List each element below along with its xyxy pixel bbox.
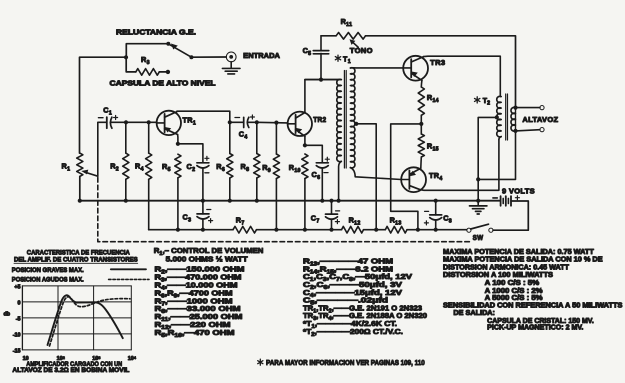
svg-text:+5: +5 <box>14 284 20 290</box>
wire TR1 collector <box>177 111 230 122</box>
wire TR2 collector <box>305 80 339 113</box>
resistor R5 <box>175 154 181 178</box>
capacitor C6 <box>316 162 328 164</box>
wire T2 CT to ground <box>478 117 497 200</box>
capacitor C4 <box>230 121 244 123</box>
svg-text:5.000 OHMS ½ WATT: 5.000 OHMS ½ WATT <box>166 254 249 263</box>
svg-text:R5,R10,—470 OHM: R5,R10,—470 OHM <box>155 328 235 339</box>
capacitor C1 <box>106 117 108 128</box>
wire to input jack <box>191 56 226 58</box>
resistor R8 <box>256 122 258 153</box>
svg-text:2: 2 <box>487 101 490 107</box>
resistor R10 <box>302 154 308 179</box>
node speaker terminal top <box>513 106 517 110</box>
wire supply bias line <box>149 229 233 231</box>
svg-text:R4: R4 <box>135 162 144 173</box>
svg-text:R9: R9 <box>262 163 271 174</box>
ground chassis <box>477 201 479 206</box>
wire input-net top-left <box>80 57 127 153</box>
battery 9 VOLTS <box>500 196 502 206</box>
resistor R2 <box>125 122 127 153</box>
ground at input jack <box>230 62 232 68</box>
resistor R9 <box>275 123 277 154</box>
wire T1 secondary bottom to TR4 base <box>350 168 401 180</box>
svg-text:-5: -5 <box>16 316 21 322</box>
svg-text:9 VOLTS: 9 VOLTS <box>502 187 535 196</box>
resistor R11 tone control <box>321 35 336 37</box>
footnote <box>258 359 263 365</box>
wire secondary to ground <box>478 131 515 180</box>
transistor TR3 <box>403 56 428 81</box>
capacitor C2 <box>197 162 209 164</box>
svg-text:DISTORSION ARMONICA: 0.45 WATT: DISTORSION ARMONICA: 0.45 WATT <box>443 264 570 271</box>
R1 wiper arrow <box>84 172 97 176</box>
capacitor C7 <box>331 201 333 214</box>
svg-text:A 100 C/S : 5%: A 100 C/S : 5% <box>485 280 540 287</box>
wire emitter junction to switch <box>391 124 422 230</box>
transformer T2 secondary winding <box>515 108 517 131</box>
wire TR1 base net <box>124 120 128 124</box>
chart curve solid graves <box>48 295 123 345</box>
wire speaker bottom <box>516 130 540 131</box>
svg-text:R5: R5 <box>162 162 171 173</box>
svg-text:ALTAVOZ DE 3.2Ω EN BOBINA MOVI: ALTAVOZ DE 3.2Ω EN BOBINA MOVIL <box>12 367 129 374</box>
node selector junction <box>124 55 128 59</box>
svg-text:TR1: TR1 <box>183 116 197 127</box>
svg-text:DISTORSION A 100 MILIWATTS: DISTORSION A 100 MILIWATTS <box>443 272 553 279</box>
svg-text:C5: C5 <box>303 46 312 57</box>
wire TR1 emitter <box>177 135 179 144</box>
capacitor C8 <box>435 201 437 215</box>
svg-text:A 1000 C/S : 2%: A 1000 C/S : 2% <box>485 288 543 295</box>
wire TR4 collector to T2 <box>420 140 499 191</box>
svg-text:-10: -10 <box>13 332 21 338</box>
svg-text:R15: R15 <box>427 142 439 153</box>
capacitor C5 <box>320 53 322 79</box>
wire TR3 emitter <box>420 80 423 87</box>
svg-text:R10: R10 <box>289 163 301 174</box>
svg-text:ALTAVOZ: ALTAVOZ <box>522 115 558 124</box>
svg-text:TONO: TONO <box>350 46 373 55</box>
svg-text:C6: C6 <box>312 170 321 181</box>
transformer T1 primary winding <box>305 79 341 81</box>
transistor TR1 <box>157 111 181 135</box>
wire TR2 base net <box>255 120 259 124</box>
chart curve dashed agudos <box>50 297 131 346</box>
resistor R12 <box>342 226 364 233</box>
resistor R4 <box>148 122 150 153</box>
svg-text:C7: C7 <box>311 213 320 224</box>
svg-text:DE SALIDA:: DE SALIDA: <box>453 310 495 317</box>
svg-text:MAXIMA POTENCIA DE SALIDA: 0.7: MAXIMA POTENCIA DE SALIDA: 0.75 WATT <box>443 249 595 256</box>
svg-text:C8: C8 <box>443 213 452 224</box>
resistor R14 <box>418 87 424 115</box>
switch selector blade <box>169 44 192 57</box>
wire TR2 emitter <box>304 136 306 145</box>
resistor R1 volume control <box>77 153 83 176</box>
svg-text:R14: R14 <box>427 93 439 104</box>
svg-text:R13: R13 <box>390 215 402 226</box>
node TR1 collector load <box>228 120 232 124</box>
svg-text:SW: SW <box>473 233 484 242</box>
svg-text:R7: R7 <box>236 215 245 226</box>
svg-text:ENTRADA: ENTRADA <box>243 51 281 60</box>
label T2 <box>475 97 480 103</box>
resistor R6 <box>229 122 231 153</box>
capacitor C3 <box>197 213 209 215</box>
wire R11 to speaker feedback <box>366 36 516 108</box>
chart frequency response box <box>22 286 131 350</box>
svg-text:C1: C1 <box>103 105 112 116</box>
svg-text:R1: R1 <box>62 162 71 173</box>
R11 wiper arrow TONO <box>352 42 358 48</box>
svg-text:1: 1 <box>348 59 351 65</box>
svg-text:R6: R6 <box>216 162 225 173</box>
node R14 R15 junction <box>419 122 423 126</box>
svg-text:R2: R2 <box>110 162 119 173</box>
svg-text:PARA MAYOR INFORMACION VER PAG: PARA MAYOR INFORMACION VER PAGINAS 109, … <box>266 358 425 367</box>
svg-text:POSICION GRAVES MAX.: POSICION GRAVES MAX. <box>12 267 84 274</box>
svg-text:POSICION AGUDOS MAX.: POSICION AGUDOS MAX. <box>12 277 84 284</box>
transistor TR4 <box>401 167 426 192</box>
dashed tone control boundary <box>98 178 471 242</box>
svg-text:R3: R3 <box>141 55 150 66</box>
svg-text:DEL AMPLIF. DE CUATRO TRANSIST: DEL AMPLIF. DE CUATRO TRANSISTORES <box>14 257 138 264</box>
wire riser to switch <box>126 44 168 58</box>
svg-text:104: 104 <box>128 354 137 362</box>
node T2 primary center-tap <box>495 115 499 119</box>
svg-text:TR2: TR2 <box>313 115 326 124</box>
transformer T1 core <box>343 71 345 169</box>
svg-text:RELUCTANCIA G.E.: RELUCTANCIA G.E. <box>116 28 196 37</box>
switch selector fixed contact <box>166 42 170 46</box>
resistor R3 <box>126 57 136 72</box>
node T1 secondary center-tap <box>354 122 358 126</box>
svg-text:MAXIMA POTENCIA DE SALIDA CON: MAXIMA POTENCIA DE SALIDA CON 10 % DE <box>443 257 603 264</box>
input jack ENTRADA <box>226 52 236 62</box>
svg-text:R11: R11 <box>341 17 353 28</box>
svg-text:0: 0 <box>18 300 21 306</box>
svg-text:-15: -15 <box>13 348 21 354</box>
resistor R7 <box>233 226 257 233</box>
svg-text:C2: C2 <box>187 162 196 173</box>
svg-text:C3: C3 <box>183 213 192 224</box>
wire speaker top <box>516 107 540 109</box>
label T1 <box>335 55 340 61</box>
svg-text:db: db <box>4 312 11 318</box>
svg-text:SENSIBILIDAD CON REFERENCIA A: SENSIBILIDAD CON REFERENCIA A 50 MILIWAT… <box>443 302 623 309</box>
svg-text:R8: R8 <box>241 162 250 173</box>
svg-text:R12: R12 <box>349 215 361 226</box>
transformer T2 core <box>505 94 507 140</box>
svg-text:A 5000 C/S : 5%: A 5000 C/S : 5% <box>485 295 543 302</box>
svg-text:C4: C4 <box>239 130 248 141</box>
wire main negative rail <box>80 200 500 202</box>
svg-text:PICK-UP MAGNETICO: 2 MV.: PICK-UP MAGNETICO: 2 MV. <box>487 325 583 332</box>
wire SW to battery <box>493 201 528 230</box>
transformer T2 primary winding <box>497 96 501 137</box>
svg-text:CAPSULA DE ALTO NIVEL: CAPSULA DE ALTO NIVEL <box>110 78 217 87</box>
wire C1 to wiper <box>98 122 106 176</box>
svg-text:TR3: TR3 <box>430 58 445 67</box>
wire T1 CT to bias divider <box>356 124 376 230</box>
svg-text:TR4: TR4 <box>429 171 443 182</box>
transistor TR2 <box>288 112 312 136</box>
resistor R13 <box>385 226 407 233</box>
transformer T1 secondary winding <box>350 68 355 168</box>
resistor R15 <box>420 124 422 134</box>
node selector moving contact <box>189 55 193 59</box>
wire TR3 collector to T2 <box>424 56 501 96</box>
switch SW <box>467 228 471 232</box>
svg-text:*T2,————200Ω CT./V.C.: *T2,————200Ω CT./V.C. <box>303 327 403 338</box>
